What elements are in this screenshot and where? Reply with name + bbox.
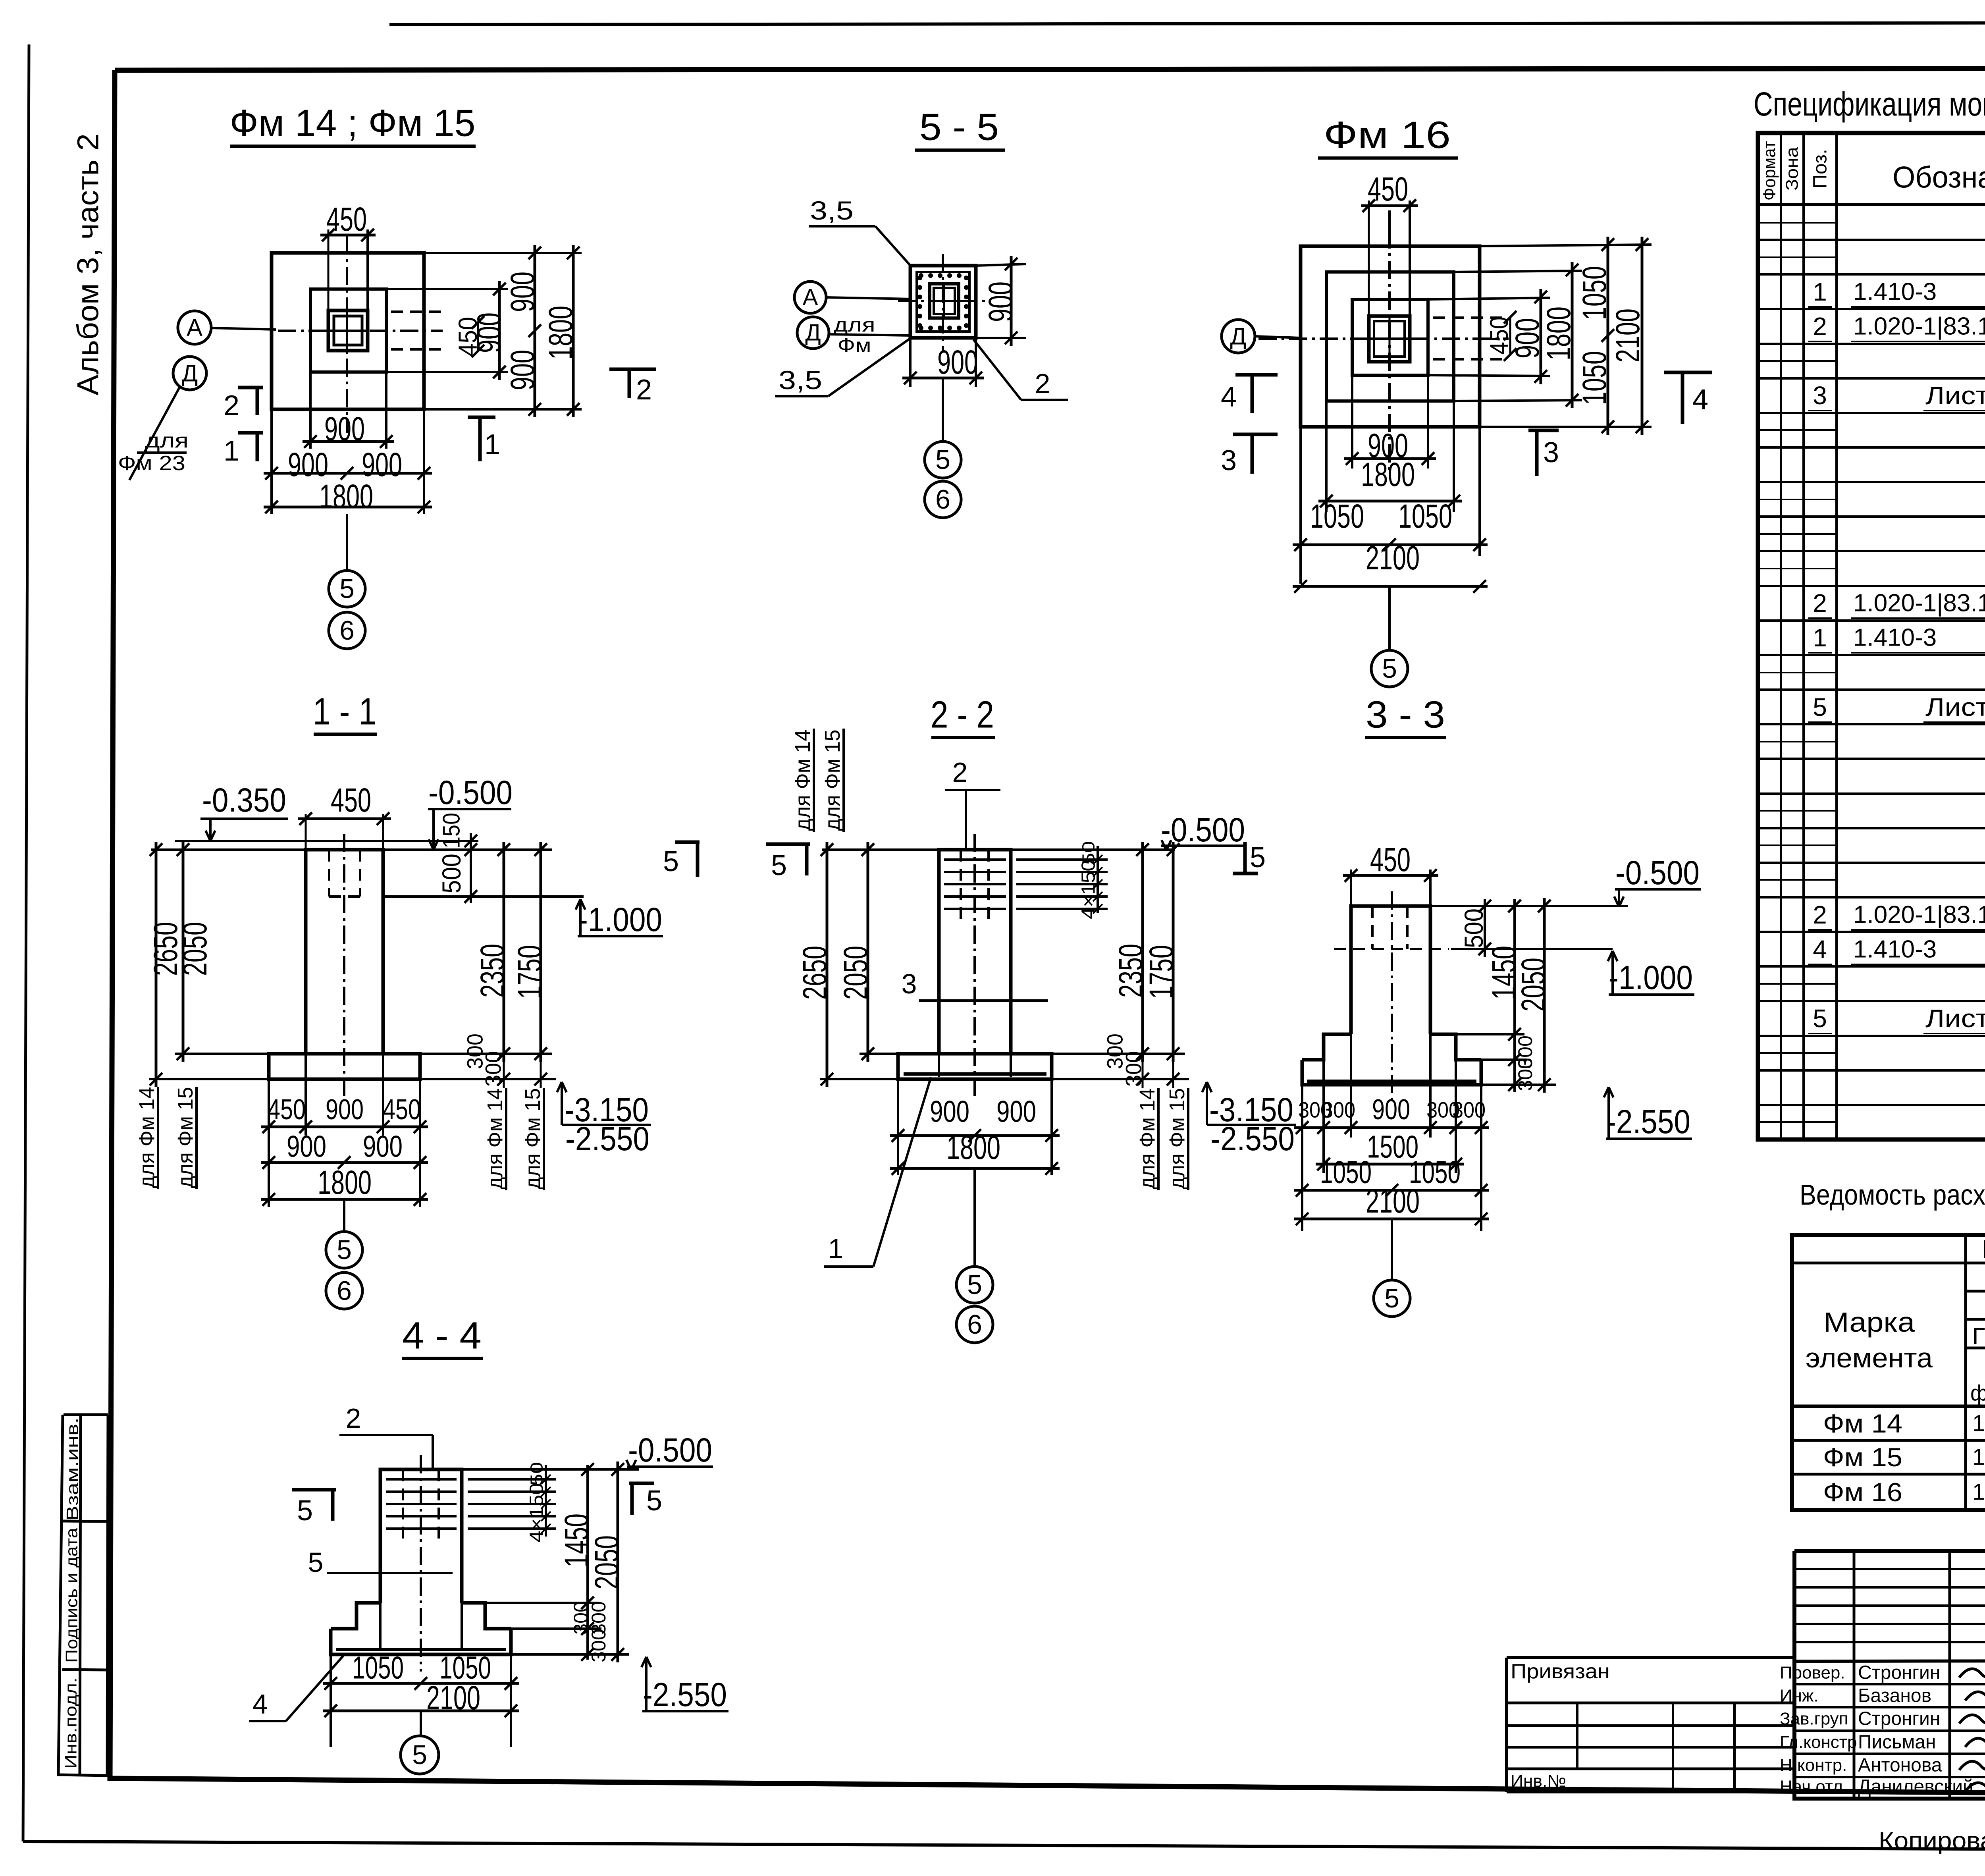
- svg-text:Фм 16: Фм 16: [1823, 1477, 1902, 1507]
- svg-text:4: 4: [1221, 381, 1237, 413]
- svg-text:300: 300: [1452, 1097, 1486, 1122]
- svg-text:1750: 1750: [511, 945, 548, 999]
- column body 4-4: [380, 1469, 462, 1603]
- svg-text:Д: Д: [1230, 323, 1247, 350]
- footing 2-2: [898, 1054, 1052, 1079]
- left stamp strip: [64, 1413, 108, 1416]
- svg-text:4 - 4: 4 - 4: [402, 1315, 482, 1357]
- svg-text:5: 5: [663, 846, 679, 877]
- svg-text:Фм 16: Фм 16: [1324, 114, 1451, 156]
- svg-text:1050: 1050: [352, 1650, 404, 1685]
- axis circle А 5-5: [794, 281, 826, 313]
- leader to axis circles 5 6: [346, 514, 348, 571]
- svg-text:Формат: Формат: [1760, 141, 1779, 201]
- title block signature rows: [1794, 1683, 1985, 1685]
- section mark 1 left: [238, 431, 263, 435]
- svg-text:2100: 2100: [1366, 539, 1420, 576]
- svg-text:3,5: 3,5: [810, 196, 854, 225]
- svg-text:-1.000: -1.000: [1609, 959, 1693, 996]
- svg-text:1050: 1050: [1320, 1155, 1372, 1190]
- svg-text:5: 5: [935, 445, 950, 475]
- svg-text:для Фм 15: для Фм 15: [521, 1088, 545, 1190]
- section mark 4 right: [1664, 371, 1712, 374]
- svg-text:5: 5: [339, 574, 355, 604]
- svg-text:-1.000: -1.000: [578, 901, 662, 938]
- svg-text:-0.500: -0.500: [428, 774, 513, 811]
- svg-text:4: 4: [1692, 384, 1708, 416]
- slab outline 2100: [1301, 246, 1480, 427]
- dim 900 bottom 5-5: [909, 338, 912, 387]
- svg-text:Н.контр.: Н.контр.: [1780, 1756, 1847, 1775]
- svg-text:-2.550: -2.550: [1210, 1120, 1295, 1157]
- signature squiggles: [1959, 1665, 1985, 1677]
- stud dots: [919, 273, 923, 278]
- left column half-pitch lines: [1758, 222, 1837, 224]
- svg-text:6: 6: [337, 1276, 352, 1306]
- svg-text:для Фм 15: для Фм 15: [173, 1087, 197, 1188]
- svg-text:Марка: Марка: [1823, 1307, 1915, 1338]
- horizontal centreline: [278, 330, 443, 332]
- svg-text:-2.550: -2.550: [643, 1676, 727, 1713]
- svg-text:2: 2: [1035, 368, 1050, 399]
- svg-text:-0.350: -0.350: [202, 781, 286, 819]
- column body 3-3: [1351, 906, 1430, 1034]
- centreline 4-4: [420, 1455, 422, 1672]
- svg-text:1: 1: [1813, 278, 1827, 306]
- svg-text:ГОСТ 5781-82: ГОСТ 5781-82: [1972, 1324, 1985, 1350]
- svg-text:1.410-3: 1.410-3: [1853, 278, 1937, 306]
- svg-text:6: 6: [967, 1309, 982, 1340]
- svg-text:1.020-1|83.1-10.3.0-01: 1.020-1|83.1-10.3.0-01: [1853, 901, 1985, 929]
- svg-text:Подпись и дата: Подпись и дата: [62, 1527, 81, 1663]
- svg-text:2050: 2050: [588, 1535, 625, 1589]
- svg-text:ф 8: ф 8: [1970, 1380, 1985, 1406]
- title block outline: [1794, 1549, 1985, 1553]
- extension lines right: [424, 252, 582, 254]
- hidden lines fm16: [1433, 316, 1507, 319]
- svg-text:900: 900: [363, 1130, 403, 1164]
- svg-text:900: 900: [930, 1095, 969, 1129]
- svg-text:-0.500: -0.500: [1615, 854, 1700, 891]
- privyazan table: [1507, 1656, 1794, 1659]
- svg-text:для: для: [834, 314, 875, 336]
- svg-text:900: 900: [996, 1095, 1036, 1129]
- column outline fm16: [1369, 316, 1410, 362]
- svg-text:1800: 1800: [1361, 456, 1415, 493]
- extension lines bottom: [270, 409, 273, 514]
- slab 3-3: [1302, 1060, 1481, 1085]
- svg-text:3: 3: [1813, 381, 1827, 410]
- column square 5-5: [930, 284, 959, 318]
- svg-text:6: 6: [339, 615, 355, 646]
- mesh spacing dims right 2-2: [1016, 858, 1108, 861]
- svg-text:Спецификация монолитных фундам: Спецификация монолитных фундаментов Фм 1…: [1754, 85, 1985, 123]
- recess dashed 1-1: [328, 850, 330, 897]
- footing 1-1: [269, 1054, 420, 1079]
- svg-text:Зона: Зона: [1783, 147, 1802, 191]
- leader circle 5 fm16: [1388, 586, 1391, 650]
- svg-text:Д: Д: [805, 320, 821, 346]
- spec table grid: [1758, 133, 1985, 1139]
- svg-text:1 - 1: 1 - 1: [313, 690, 376, 733]
- svg-text:3,5: 3,5: [779, 365, 822, 395]
- svg-text:1: 1: [1813, 623, 1827, 652]
- svg-text:5: 5: [771, 850, 787, 881]
- bottom dims 3-3: [1301, 1085, 1303, 1231]
- svg-text:Антонова: Антонова: [1858, 1755, 1942, 1776]
- svg-text:Привязан: Привязан: [1511, 1660, 1610, 1683]
- section mark 2 left: [238, 386, 263, 389]
- mesh lines 4-4: [386, 1478, 457, 1481]
- extension lines bottom fm16: [1299, 427, 1302, 584]
- bottom dims 2-2: [897, 1079, 899, 1175]
- sheet outer border left: [23, 44, 29, 1841]
- svg-text:2: 2: [224, 390, 239, 422]
- column edge bars 4-4: [379, 1603, 382, 1648]
- column body 1-1: [306, 850, 383, 1054]
- svg-text:2: 2: [952, 757, 968, 788]
- svg-text:Лист: Лист: [1925, 381, 1985, 410]
- svg-text:13.5: 13.5: [1972, 1444, 1985, 1470]
- leader circle 5 3-3: [1391, 1219, 1393, 1280]
- svg-text:Обозначение: Обозначение: [1892, 161, 1985, 195]
- centreline 3-3: [1391, 891, 1393, 1102]
- svg-text:для Фм 14: для Фм 14: [791, 730, 815, 831]
- svg-text:1.020-1|83.1-10.3.0-01: 1.020-1|83.1-10.3.0-01: [1853, 590, 1985, 617]
- svg-text:-2.550: -2.550: [565, 1120, 649, 1157]
- leader circles 5 6 2-2: [973, 1168, 976, 1267]
- svg-text:Изделия арматурные: Изделия арматурные: [1982, 1234, 1985, 1264]
- centrelines fm16: [1388, 230, 1391, 470]
- svg-text:450: 450: [331, 781, 371, 819]
- svg-text:5: 5: [337, 1235, 352, 1265]
- section mark 2 right: [609, 368, 656, 371]
- svg-text:5: 5: [412, 1740, 427, 1770]
- centrelines 5-5: [942, 254, 944, 351]
- svg-text:Поз.: Поз.: [1810, 149, 1831, 189]
- svg-text:Базанов: Базанов: [1858, 1685, 1931, 1706]
- svg-text:А: А: [187, 314, 202, 341]
- step outline 900: [1352, 299, 1428, 375]
- svg-text:5: 5: [1813, 693, 1827, 721]
- svg-text:4×150: 4×150: [526, 1483, 547, 1542]
- step outline 900x900: [310, 289, 386, 372]
- svg-text:Лист: Лист: [1925, 693, 1985, 721]
- extension lines right fm16: [1480, 245, 1652, 246]
- svg-text:Фм 15: Фм 15: [1823, 1442, 1902, 1472]
- dim 900 right 5-5: [976, 264, 1026, 266]
- axis circle Д fm16: [1222, 320, 1255, 353]
- column body 2-2: [939, 850, 1011, 1054]
- slab 4-4: [331, 1629, 511, 1654]
- title block small rows top: [1794, 1568, 1985, 1570]
- svg-text:5: 5: [1250, 842, 1266, 873]
- svg-text:3: 3: [902, 968, 917, 999]
- svg-text:Ведомость расхода стали на оди: Ведомость расхода стали на один элемент,…: [1800, 1179, 1985, 1211]
- centreline 1-1: [343, 834, 345, 1096]
- section mark 5 right 4-4: [629, 1482, 654, 1485]
- section mark 5 top left 2-2: [766, 843, 810, 846]
- svg-text:Д: Д: [182, 360, 198, 387]
- svg-text:Данилевский: Данилевский: [1858, 1776, 1973, 1797]
- svg-text:3: 3: [1543, 437, 1559, 469]
- svg-text:5: 5: [1813, 1004, 1827, 1033]
- svg-text:Письман: Письман: [1858, 1732, 1936, 1753]
- svg-text:1800: 1800: [946, 1129, 1000, 1166]
- svg-text:1: 1: [224, 435, 239, 467]
- axis circle Д 5-5: [797, 317, 829, 349]
- svg-text:-0.500: -0.500: [628, 1431, 712, 1469]
- column edge bars 2-2: [938, 1054, 940, 1077]
- svg-text:Лист: Лист: [1925, 1004, 1985, 1033]
- svg-text:2: 2: [1813, 900, 1827, 929]
- svg-text:1.020-1|83.1-10.30-01: 1.020-1|83.1-10.30-01: [1853, 313, 1985, 340]
- svg-text:300: 300: [588, 1629, 610, 1662]
- svg-text:5: 5: [1384, 1283, 1399, 1313]
- svg-text:Альбом 3, часть 2: Альбом 3, часть 2: [71, 133, 105, 395]
- section mark 3 left: [1233, 433, 1278, 436]
- svg-text:5: 5: [967, 1270, 982, 1300]
- leader circle 5 4-4: [420, 1711, 422, 1736]
- axis circle А: [178, 311, 211, 344]
- svg-text:900: 900: [326, 1094, 364, 1126]
- column centre cross: [346, 310, 348, 351]
- svg-text:Гл.констр: Гл.констр: [1780, 1733, 1857, 1752]
- svg-text:Фм: Фм: [838, 334, 871, 357]
- svg-text:1800: 1800: [319, 478, 373, 515]
- svg-text:300: 300: [1322, 1097, 1355, 1122]
- centreline 2-2: [973, 834, 976, 1096]
- svg-text:1: 1: [828, 1233, 844, 1264]
- section mark 3 below: [1528, 429, 1559, 432]
- svg-text:для Фм 15: для Фм 15: [821, 730, 844, 831]
- sheet outer border bottom: [23, 1841, 1985, 1851]
- bottom dims 4-4: [330, 1654, 332, 1747]
- mesh bottom line 2-2: [904, 1072, 1046, 1076]
- svg-text:2050: 2050: [1515, 958, 1552, 1012]
- svg-text:Фм 14 ; Фм 15: Фм 14 ; Фм 15: [230, 102, 476, 145]
- svg-text:900: 900: [1372, 1094, 1410, 1126]
- mesh lines 2-2: [944, 858, 1006, 861]
- mesh spacing dims right 4-4: [468, 1478, 556, 1481]
- svg-text:Фм 14: Фм 14: [1823, 1409, 1902, 1438]
- svg-text:900: 900: [937, 343, 978, 381]
- svg-text:Копировал: Боброва: Копировал: Боброва: [1879, 1828, 1985, 1854]
- steel table grid: [1792, 1235, 1985, 1510]
- section mark 4 left: [1235, 373, 1278, 377]
- svg-text:Взам.инв.: Взам.инв.: [63, 1417, 82, 1521]
- svg-text:2100: 2100: [1366, 1182, 1420, 1220]
- svg-text:1050: 1050: [1398, 497, 1452, 535]
- svg-text:5: 5: [646, 1485, 662, 1517]
- svg-text:13.5: 13.5: [1972, 1479, 1985, 1505]
- svg-text:4: 4: [252, 1689, 268, 1720]
- svg-text:1800: 1800: [318, 1164, 372, 1201]
- section mark 5 right 1-1: [675, 841, 700, 844]
- svg-text:13.5: 13.5: [1972, 1411, 1985, 1436]
- svg-text:2 - 2: 2 - 2: [931, 694, 994, 736]
- svg-text:900: 900: [287, 1130, 326, 1164]
- svg-text:2: 2: [636, 374, 652, 406]
- svg-text:900: 900: [470, 312, 508, 353]
- section mark 5 left 4-4: [292, 1488, 336, 1492]
- svg-text:3: 3: [1221, 445, 1237, 476]
- axis circle Д: [173, 357, 206, 390]
- svg-text:1: 1: [484, 429, 500, 461]
- slab outline 1800x1800: [272, 253, 424, 409]
- svg-text:для Фм 15: для Фм 15: [1165, 1088, 1189, 1190]
- extension line top right: [383, 848, 552, 851]
- svg-text:2: 2: [1813, 589, 1827, 617]
- svg-text:900: 900: [982, 281, 1019, 322]
- sheet outer border top: [389, 22, 1985, 25]
- svg-text:5: 5: [297, 1495, 313, 1527]
- leader circles 5 6 1-1: [343, 1199, 345, 1232]
- section mark 5 right 2-2: [1233, 872, 1258, 875]
- svg-text:Стронгин: Стронгин: [1858, 1662, 1940, 1683]
- bottom dims 1-1: [268, 1079, 270, 1207]
- column outline 450: [328, 310, 368, 351]
- svg-text:500: 500: [437, 854, 466, 893]
- svg-text:150: 150: [438, 813, 465, 848]
- svg-text:Инв.подл.: Инв.подл.: [62, 1677, 80, 1769]
- leader circles 5 6 of view 5-5: [942, 378, 944, 442]
- svg-text:для Фм 14: для Фм 14: [483, 1088, 507, 1190]
- svg-text:2350: 2350: [474, 944, 511, 998]
- mesh bottom line 3-3: [1307, 1080, 1476, 1083]
- svg-text:для Фм 14: для Фм 14: [135, 1087, 159, 1188]
- vertical centreline: [346, 236, 348, 433]
- svg-text:Провер.: Провер.: [1780, 1663, 1845, 1683]
- svg-text:Стронгин: Стронгин: [1858, 1708, 1940, 1729]
- svg-text:6: 6: [935, 484, 950, 515]
- svg-text:300: 300: [1514, 1058, 1536, 1091]
- svg-text:450: 450: [1370, 841, 1411, 878]
- step block 3-3: [1302, 1034, 1351, 1060]
- svg-text:для Фм 14: для Фм 14: [1135, 1088, 1159, 1190]
- svg-text:1.410-3: 1.410-3: [1853, 936, 1937, 963]
- svg-text:3 - 3: 3 - 3: [1366, 694, 1445, 736]
- svg-text:4: 4: [1813, 935, 1827, 964]
- svg-text:А: А: [803, 285, 818, 310]
- section mark 1 below: [468, 416, 495, 419]
- svg-text:2: 2: [346, 1403, 361, 1434]
- svg-text:5: 5: [1382, 654, 1397, 684]
- svg-text:элемента: элемента: [1806, 1342, 1933, 1373]
- recess dashed 3-3: [1371, 906, 1374, 949]
- mesh bottom line 4-4: [336, 1648, 506, 1651]
- svg-text:Нач.отл.: Нач.отл.: [1780, 1777, 1848, 1797]
- hidden lines right: [391, 310, 443, 313]
- svg-text:1050: 1050: [1310, 497, 1364, 535]
- step block 4-4: [331, 1603, 380, 1629]
- formwork outer square: [910, 266, 976, 338]
- step outline 1800: [1326, 272, 1454, 401]
- svg-text:1.410-3: 1.410-3: [1853, 624, 1937, 652]
- svg-text:5: 5: [308, 1547, 324, 1578]
- svg-text:Фм 23: Фм 23: [118, 452, 185, 475]
- leader 2: [973, 339, 1021, 400]
- svg-text:Инв.№: Инв.№: [1511, 1772, 1566, 1791]
- svg-text:2: 2: [1813, 312, 1827, 341]
- svg-text:5 - 5: 5 - 5: [919, 106, 999, 148]
- svg-text:-2.550: -2.550: [1606, 1103, 1690, 1140]
